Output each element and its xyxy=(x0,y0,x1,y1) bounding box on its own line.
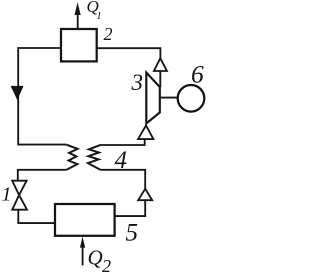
heat exchanger left zigzag coil xyxy=(66,145,77,170)
discharge check valve (open triangle above compressor) xyxy=(154,58,167,71)
svg-text:3: 3 xyxy=(131,70,144,95)
wire: heat-exchanger bottom-left pipe to expansion valve xyxy=(18,170,67,181)
wire: discharge valve base to compressor top corner xyxy=(159,71,161,87)
Q1 arrow shaft xyxy=(77,14,79,30)
svg-text:1: 1 xyxy=(2,184,12,206)
Q2 arrow shaft xyxy=(82,246,84,265)
flow direction arrow (filled) on left wire xyxy=(11,86,24,100)
svg-text:6: 6 xyxy=(191,60,204,89)
svg-text:4: 4 xyxy=(115,147,128,174)
motor circle 6 xyxy=(178,85,205,112)
wire: motor shaft xyxy=(160,97,178,99)
wire: expansion valve to evaporator left xyxy=(18,210,55,223)
wire: right bottom pipe down through check valve region xyxy=(100,170,145,189)
compressor 3 (trapezoid) xyxy=(146,73,160,124)
Q2 arrowhead xyxy=(80,237,85,248)
Q1 arrowhead xyxy=(75,2,81,15)
wire: condenser right to top-right corner down to discharge valve xyxy=(97,48,161,58)
svg-text:Q: Q xyxy=(88,245,103,269)
check valve on evaporator outlet (open triangle, bottom right) xyxy=(138,189,152,200)
condenser box 2 xyxy=(61,29,97,61)
expansion valve 1 (hourglass) xyxy=(12,181,26,195)
heat exchanger right zigzag coil xyxy=(88,145,101,170)
suction check valve (open triangle below compressor) xyxy=(138,125,153,139)
svg-text:2: 2 xyxy=(102,256,111,273)
svg-text:5: 5 xyxy=(126,219,139,246)
wire: condenser left to left vertical down to heat exchanger top-left pipe xyxy=(18,48,66,145)
wire: check valve base down and left to evaporator right xyxy=(115,200,145,216)
evaporator box 5 xyxy=(55,204,115,236)
wire: heat-exchanger right top pipe up to suction valve base xyxy=(101,139,145,145)
svg-text:1: 1 xyxy=(96,11,101,22)
svg-text:2: 2 xyxy=(104,24,113,44)
